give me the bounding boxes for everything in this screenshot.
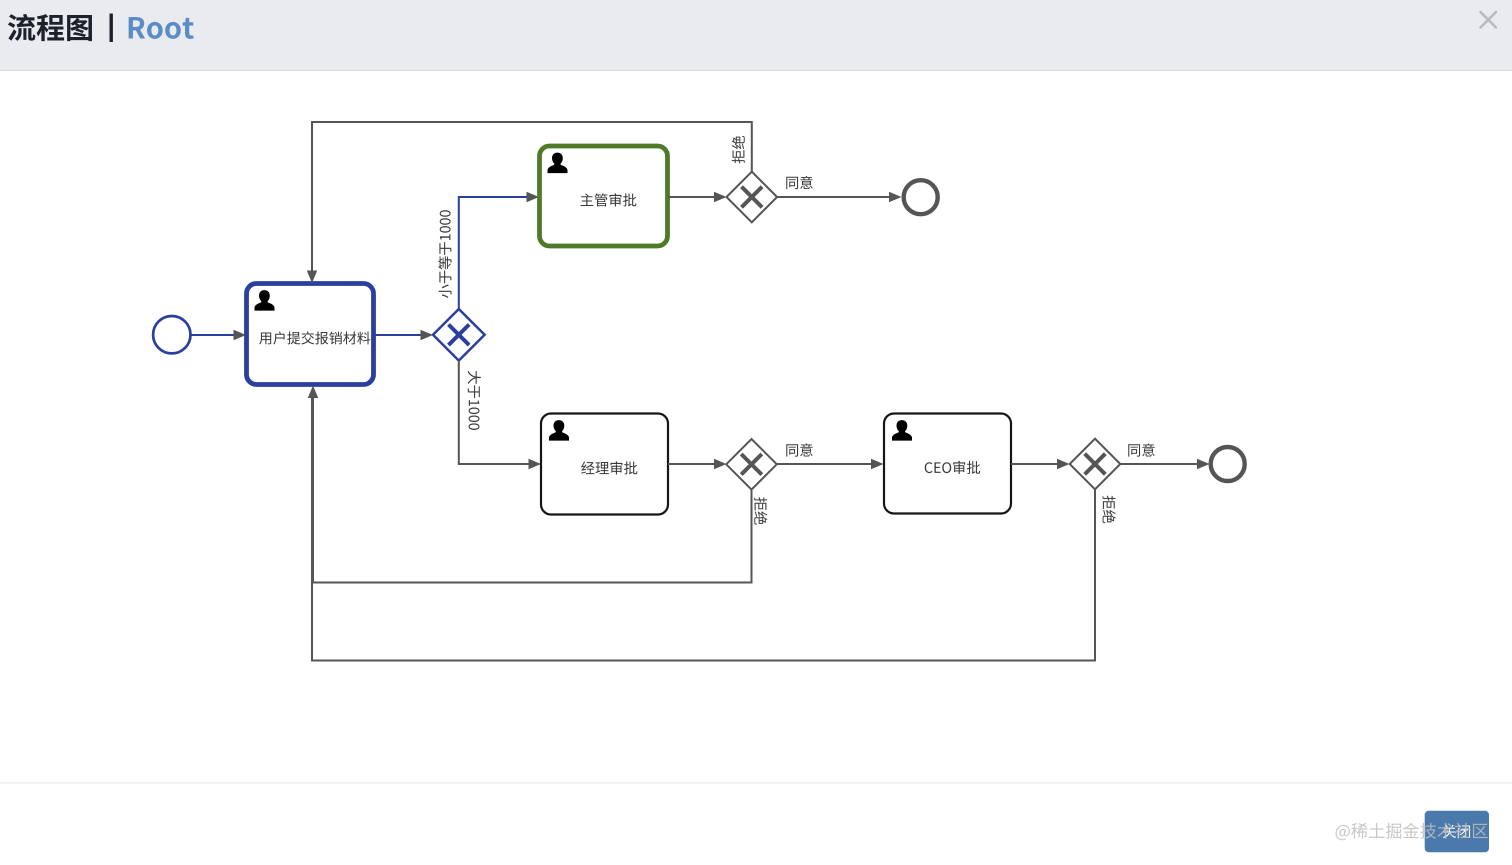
wire task3 to gateway3 <box>668 463 714 465</box>
wire start to task1 <box>192 334 235 336</box>
label 拒绝 (gw4 loop) <box>1102 496 1115 523</box>
watermark 稀土掘金 <box>1336 823 1488 841</box>
gateway3 exclusive (gray) <box>726 439 777 490</box>
task 经理审批 <box>541 414 668 515</box>
close icon <box>1481 12 1497 28</box>
header link Root <box>129 17 194 39</box>
label 同意 (gw4) <box>1128 443 1154 456</box>
close button 关闭 <box>1425 811 1489 852</box>
wire gateway2 to end1 (同意) <box>777 196 889 198</box>
wire gateway1 down to task3 (大于1000) <box>459 361 529 464</box>
start event circle <box>153 316 190 353</box>
task 用户提交报销材料 <box>247 284 374 385</box>
wire gateway3 to task4 (同意) <box>777 463 871 465</box>
task CEO审批 <box>884 414 1011 514</box>
label 大于1000 <box>468 371 481 430</box>
header separator bar <box>110 14 113 43</box>
footer separator <box>0 782 1512 784</box>
header title 流程图 <box>8 14 92 41</box>
wire task2 to gateway2 <box>668 196 714 198</box>
label 同意 <box>786 176 812 189</box>
wire gateway2 reject loop to task1 top <box>312 122 752 271</box>
gateway2 exclusive (gray) <box>727 172 778 223</box>
header bar <box>0 0 1512 70</box>
label 小于等于1000 <box>438 210 451 298</box>
label 同意 (gw3) <box>786 443 812 456</box>
gateway1 exclusive (blue) <box>433 309 485 361</box>
task 主管审批 <box>540 146 668 246</box>
wire gateway3 reject loop to task1 bottom <box>313 398 752 583</box>
label 拒绝 (top loop) <box>732 136 745 163</box>
wire gateway4 to end2 (同意) <box>1120 463 1197 465</box>
gateway4 exclusive (gray) <box>1070 439 1121 490</box>
label 拒绝 (gw3 loop) <box>754 497 767 524</box>
wire gateway4 reject loop to task1 bottom <box>312 398 1095 661</box>
wire gateway1 up to task2 (小于等于1000) <box>459 197 527 309</box>
wire task4 to gateway4 <box>1011 463 1057 465</box>
end event 2 <box>1211 447 1245 481</box>
end event 1 <box>904 180 938 214</box>
wire task1 to gateway1 <box>374 334 421 336</box>
